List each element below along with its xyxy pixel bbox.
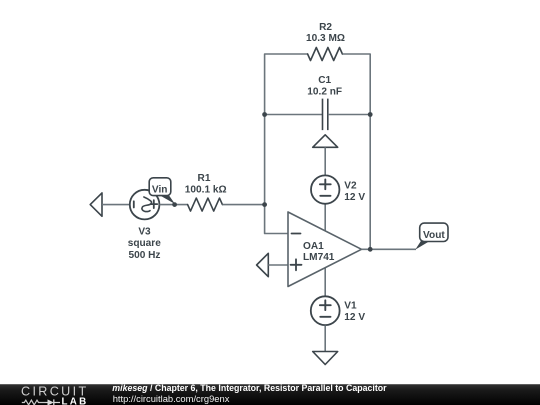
logo resistor squiggle xyxy=(22,400,46,405)
ground (non-inverting input) xyxy=(257,253,269,276)
svg-text:http://circuitlab.com/crg9enx: http://circuitlab.com/crg9enx xyxy=(113,393,230,404)
svg-text:Vout: Vout xyxy=(423,230,445,241)
ground (below V1) xyxy=(313,352,338,365)
node dot: output junction xyxy=(368,247,373,252)
wire: R2 right to top-right corner down to C1 node xyxy=(342,54,370,115)
wire: V3 to R1 xyxy=(159,204,187,206)
svg-text:square: square xyxy=(128,238,161,249)
resistor R2 xyxy=(308,48,343,61)
op-amp OA1 triangle xyxy=(288,212,362,287)
svg-text:V1: V1 xyxy=(344,301,357,312)
op-amp minus symbol xyxy=(292,233,301,235)
wire: op-amp top power pin xyxy=(324,204,326,232)
node dot: Vin node xyxy=(172,202,177,207)
svg-text:R1: R1 xyxy=(198,173,211,184)
svg-text:12 V: 12 V xyxy=(344,312,365,323)
svg-text:OA1: OA1 xyxy=(303,241,324,252)
svg-text:LAB: LAB xyxy=(62,396,89,405)
wire: op-amp bottom power pin xyxy=(324,266,326,296)
node label Vin box xyxy=(149,178,171,196)
logo diode xyxy=(48,399,54,405)
resistor R1 xyxy=(188,198,223,211)
wire: top-left corner from left vertical to R2 xyxy=(265,54,308,115)
ground (above V2) xyxy=(313,135,338,148)
wire: right vertical from C1 node down to output node xyxy=(369,115,371,250)
svg-text:500 Hz: 500 Hz xyxy=(129,250,161,261)
node dot: R1 / left vertical junction xyxy=(262,202,267,207)
svg-text:R2: R2 xyxy=(319,22,332,33)
source V3 (square 500 Hz) xyxy=(130,190,160,220)
wire: R1 to left vertical xyxy=(222,204,264,206)
svg-text:mikeseg / Chapter 6, The Integ: mikeseg / Chapter 6, The Integrator, Res… xyxy=(112,383,387,393)
source V2 xyxy=(311,175,339,203)
source V1 xyxy=(311,296,340,325)
wire: op-amp output xyxy=(362,248,417,250)
svg-text:LM741: LM741 xyxy=(303,252,335,263)
wire: V2 top to ground xyxy=(324,147,326,175)
capacitor C1 xyxy=(323,99,328,131)
footer bar xyxy=(0,384,540,405)
svg-text:V3: V3 xyxy=(138,227,151,238)
wire: V1 bottom to ground xyxy=(324,325,326,351)
wire: left vertical from C1 node down through R1 node to inverting input xyxy=(265,115,288,234)
node label Vout pointer wedge xyxy=(415,241,430,250)
wire: ground to V3 xyxy=(102,204,130,206)
node label Vout box xyxy=(420,223,448,241)
wire: ground to non-inverting input xyxy=(268,264,288,266)
node dot: C1 right junction xyxy=(368,112,373,117)
wire: C1 left lead xyxy=(265,114,323,116)
svg-text:10.2 nF: 10.2 nF xyxy=(307,86,342,97)
ground (input, left of V3) xyxy=(90,193,102,216)
svg-text:12 V: 12 V xyxy=(344,192,365,203)
svg-text:Vin: Vin xyxy=(152,184,168,195)
svg-text:10.3 MΩ: 10.3 MΩ xyxy=(306,33,345,44)
svg-text:C1: C1 xyxy=(318,75,331,86)
node dot: C1 left junction xyxy=(262,112,267,117)
svg-text:100.1 kΩ: 100.1 kΩ xyxy=(185,184,227,195)
node label Vin pointer wedge xyxy=(159,195,175,204)
op-amp plus symbol xyxy=(291,259,302,270)
svg-text:V2: V2 xyxy=(344,180,357,191)
wire: C1 right lead xyxy=(328,114,370,116)
